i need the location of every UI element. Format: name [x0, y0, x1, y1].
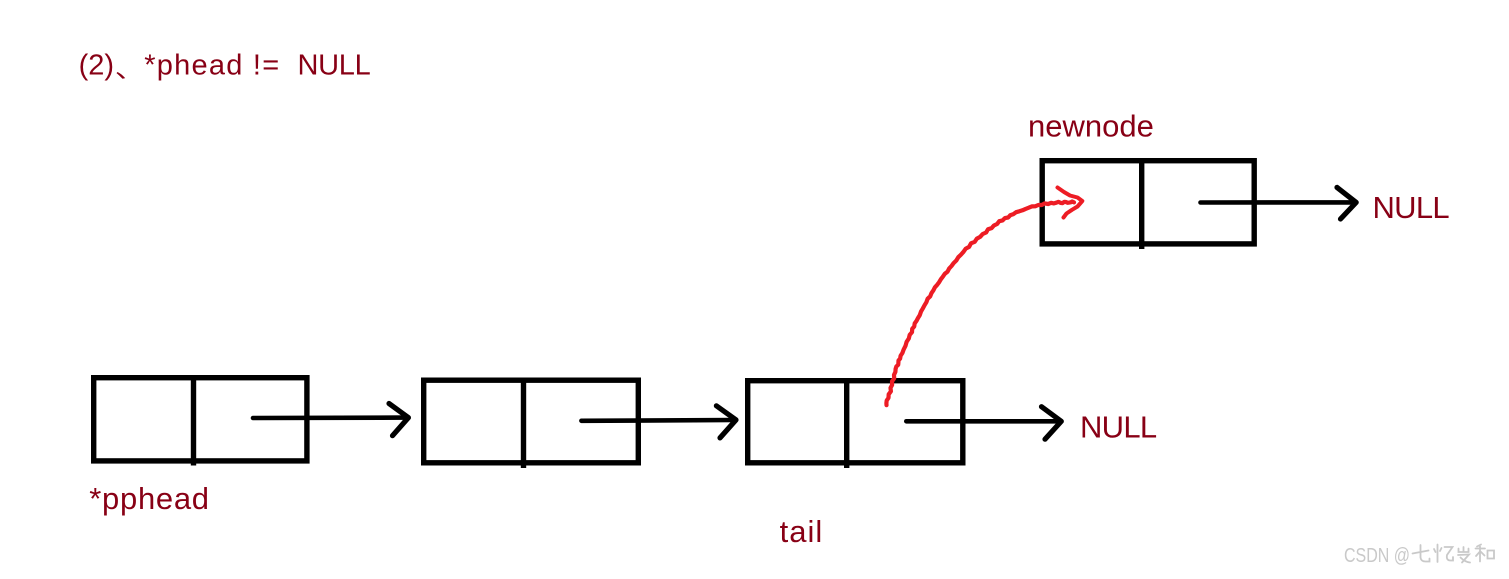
- watermark hanzi yi: [1434, 545, 1453, 563]
- watermark hanzi he: [1476, 545, 1495, 562]
- arrow box1 to box2: [253, 404, 408, 436]
- svg-text:*pphead: *pphead: [89, 481, 209, 516]
- svg-text:NULL: NULL: [1373, 190, 1450, 225]
- watermark hanzi sui: [1458, 547, 1470, 563]
- svg-text:tail: tail: [780, 514, 824, 549]
- node box 2: [424, 380, 639, 469]
- arrow box3 to NULL: [906, 407, 1061, 440]
- svg-text:NULL: NULL: [298, 50, 371, 82]
- next-pointer arrow newnode to NULL: [1201, 187, 1357, 219]
- svg-text:(2): (2): [79, 50, 114, 82]
- svg-text:newnode: newnode: [1028, 109, 1154, 144]
- node box 1 (*pphead): [94, 377, 307, 466]
- arrow box2 to box3: [581, 406, 736, 438]
- svg-text:CSDN @: CSDN @: [1344, 544, 1410, 567]
- svg-text:NULL: NULL: [1080, 410, 1157, 445]
- node box 3 (tail): [748, 380, 963, 468]
- node box newnode: [1042, 160, 1254, 249]
- title ideographic comma: [117, 72, 126, 79]
- red arrowhead into newnode: [1058, 188, 1083, 218]
- red pointer curve from tail node to newnode (drawn over boxes): [886, 202, 1074, 406]
- svg-text:*phead !=: *phead !=: [144, 50, 280, 82]
- watermark hanzi qi: [1413, 545, 1430, 562]
